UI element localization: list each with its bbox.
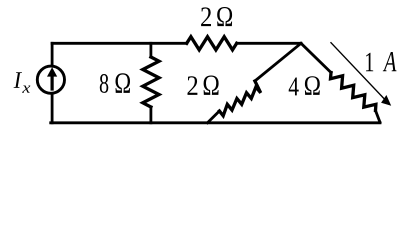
label 8-ohm: digit 8 [100,74,108,93]
label top 2-ohm: ohm sign [217,7,232,26]
label Ix: letter I [14,72,22,88]
resistor 4-ohm diagonal zigzag [331,73,376,111]
label Ix: subscript x [22,85,30,92]
label top 2-ohm: digit 2 [201,7,211,26]
wire bottom [51,121,380,124]
1 A arrow line [331,42,386,100]
wire left vertical below current source [51,94,54,123]
wire top right segment [237,42,301,45]
wire top left segment [52,42,187,45]
label diag 2-ohm: digit 2 [187,76,197,95]
wire 8-ohm bottom lead [149,107,152,123]
wire 4-ohm top lead [301,43,331,72]
wire 2-ohm-diagonal bottom lead [208,111,220,123]
label 4-ohm: ohm sign [305,76,320,95]
wire 8-ohm top lead [149,43,152,57]
wire left vertical above current source [51,43,54,66]
label 4-ohm: digit 4 [289,77,299,95]
resistor 2-ohm top zigzag [187,37,237,50]
label diag 2-ohm: ohm sign [204,75,219,94]
1 A arrow head [381,95,391,106]
label 8-ohm: ohm sign [116,73,131,93]
wire 2-ohm-diagonal top lead [255,43,301,81]
wire 4-ohm bottom lead [376,111,381,123]
label 1 A: digit 1 [366,53,373,71]
resistor 8-ohm vertical zigzag [143,57,159,107]
current source arrow head [47,67,57,76]
current source arrow shaft [51,74,54,91]
resistor 2-ohm diagonal zigzag [219,81,260,116]
current source Ix circle [37,66,64,93]
label 1 A: letter A [383,52,397,71]
